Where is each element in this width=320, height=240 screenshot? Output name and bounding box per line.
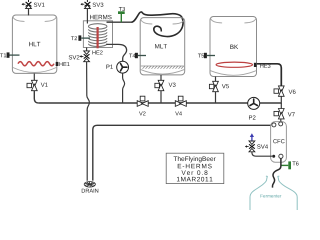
port CFC top-right — [279, 122, 283, 126]
label Fermenter — [261, 194, 282, 197]
label SV2 — [69, 55, 72, 59]
vessel MLT — [140, 18, 185, 75]
wire SV4 to CFC jacket — [252, 152, 272, 156]
fermenter carboy — [250, 176, 297, 211]
wire junction to V7 — [280, 103, 282, 109]
valve V7 — [274, 109, 284, 119]
cold water arrow (blue) — [250, 133, 254, 137]
wire SV3 into HERMS pot — [86, 9, 88, 24]
pump P1 — [117, 61, 129, 73]
valve V4 — [175, 96, 186, 106]
label CFC — [273, 139, 277, 143]
wire SV2 down with flex jog crossing main pipe to drain — [87, 62, 90, 181]
label SV3 — [93, 3, 96, 7]
label V5 — [222, 84, 226, 88]
pump P1 feed pipe from coil — [106, 44, 126, 61]
label HLT — [29, 42, 33, 46]
label DRAIN — [82, 189, 85, 193]
wire V6 to main pipe junction — [280, 96, 282, 103]
label V7 — [288, 112, 292, 116]
valve V5 — [209, 81, 218, 91]
pump P2 — [248, 97, 260, 109]
wire BK outlet to V5 — [215, 77, 217, 82]
label BK — [230, 45, 233, 49]
label HERMS — [90, 15, 93, 19]
wire V5 to main pipe — [215, 92, 217, 103]
solenoid valve SV1 — [22, 0, 32, 9]
sensor T2 — [71, 35, 90, 40]
label HE3 — [260, 64, 263, 68]
hose loop into MLT — [132, 12, 184, 37]
label HE1 — [59, 62, 62, 66]
vessel HLT — [12, 15, 56, 73]
label MLT — [155, 44, 159, 48]
pipe BK side outlet to V6 — [257, 64, 281, 86]
drain symbol — [84, 182, 95, 188]
solenoid valve SV4 — [245, 141, 255, 152]
wire HERMS pot drain to SV2 — [86, 48, 88, 52]
element connector HE1 — [56, 62, 59, 66]
valve V1 — [27, 80, 37, 90]
title box — [166, 153, 224, 183]
label P1 — [106, 65, 109, 69]
label V3 — [169, 83, 173, 87]
pipe lower bus — [93, 125, 272, 180]
wire MLT outlet to V3 — [160, 75, 162, 81]
label V1 — [41, 83, 45, 87]
junction dot CFC bottom-left — [272, 155, 275, 158]
sensor T3 — [118, 7, 125, 22]
label HE2 — [92, 51, 95, 55]
vessel HERMS box — [83, 21, 112, 48]
coil in HERMS — [89, 24, 107, 47]
label V2 — [139, 112, 143, 116]
pipe main bus — [39, 102, 282, 104]
wire SV1 down pipe — [28, 9, 30, 16]
valve V6 — [274, 86, 284, 96]
port CFC top-left — [272, 123, 276, 127]
sensor T6 — [281, 161, 298, 169]
solenoid valve SV2 — [80, 51, 90, 62]
heating element HE2 — [96, 27, 98, 48]
title text — [174, 156, 216, 181]
heating element HE1 — [18, 62, 54, 66]
false bottom MLT — [141, 66, 184, 69]
label P2 — [249, 115, 252, 119]
wire wort out CFC to fermenter — [273, 158, 281, 187]
wire V1 to main pipe corner — [34, 91, 38, 103]
wire V7 to CFC — [280, 119, 282, 122]
label SV4 — [257, 144, 260, 148]
sensor T5 — [198, 53, 215, 58]
label V6 — [289, 90, 293, 94]
port CFC bottom-right — [279, 154, 283, 158]
vessel BK — [210, 17, 257, 77]
label SV1 — [34, 3, 37, 7]
sensor T1 — [0, 52, 19, 57]
wire V3 to main pipe — [160, 91, 162, 103]
label V4 — [175, 112, 179, 116]
valve V3 — [155, 80, 164, 90]
heating element HE3 — [216, 62, 252, 67]
wire HLT outlet to V1 — [33, 74, 35, 81]
solenoid valve SV3 — [80, 0, 90, 9]
sensor T4 — [129, 53, 146, 58]
wire P1 suction with flex jog to main pipe — [123, 73, 125, 103]
valve V2 — [137, 96, 148, 106]
pipe coil out to T3 — [107, 21, 132, 23]
counterflow chiller CFC — [271, 122, 287, 163]
element connector HE3 — [254, 63, 257, 67]
